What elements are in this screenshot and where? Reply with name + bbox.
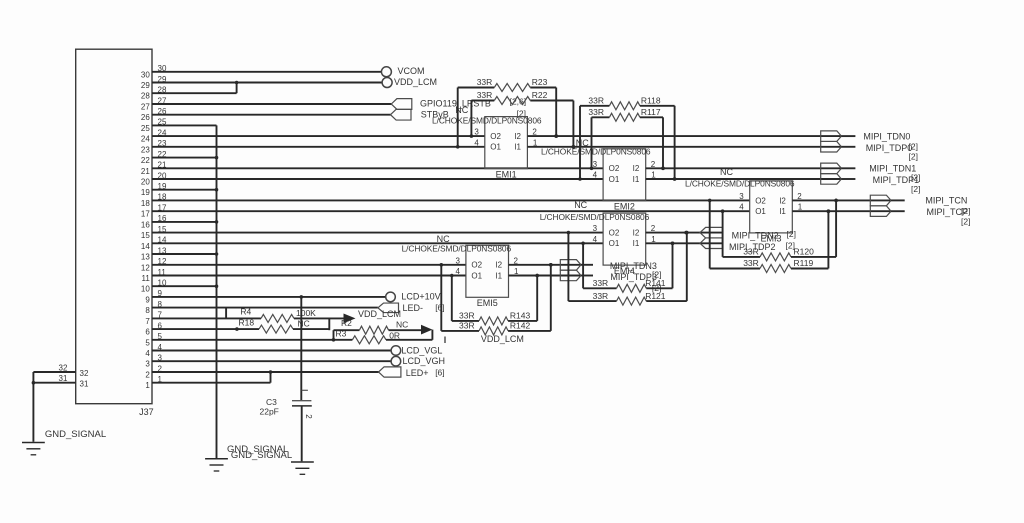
svg-text:31: 31 bbox=[59, 374, 68, 383]
wire pin 17 bbox=[152, 210, 750, 212]
ground GND_SIGNAL (left) bbox=[22, 429, 106, 455]
svg-text:26: 26 bbox=[141, 113, 150, 122]
svg-text:LED-: LED- bbox=[403, 303, 424, 313]
value label L/CHOKE/SMD/DLP0NS0806 (EMI3) bbox=[685, 179, 795, 189]
svg-text:19: 19 bbox=[141, 188, 150, 197]
port LED- bbox=[378, 302, 445, 312]
svg-text:4: 4 bbox=[474, 138, 479, 147]
svg-text:O2: O2 bbox=[490, 132, 501, 141]
svg-text:O1: O1 bbox=[490, 143, 501, 152]
svg-text:R119: R119 bbox=[794, 258, 814, 268]
svg-text:17: 17 bbox=[141, 210, 150, 219]
svg-text:13: 13 bbox=[141, 253, 150, 262]
svg-text:MIPI_TDN3: MIPI_TDN3 bbox=[610, 261, 657, 271]
svg-text:R2: R2 bbox=[341, 318, 352, 328]
svg-text:NC: NC bbox=[574, 200, 587, 210]
svg-text:[6]: [6] bbox=[435, 302, 444, 312]
EMI filter EMI3 bbox=[739, 181, 803, 244]
svg-text:4: 4 bbox=[593, 235, 598, 244]
svg-text:R120: R120 bbox=[794, 247, 815, 257]
svg-text:R23: R23 bbox=[532, 77, 548, 87]
svg-text:33R: 33R bbox=[477, 90, 493, 100]
wire pin 28 (joins pin 29 net) bbox=[152, 81, 238, 94]
connector J37 bbox=[59, 49, 167, 417]
svg-text:O1: O1 bbox=[609, 175, 620, 184]
svg-text:4: 4 bbox=[739, 203, 744, 212]
svg-text:I2: I2 bbox=[633, 229, 640, 238]
value label L/CHOKE/SMD/DLP0NS0806 (EMI2) bbox=[541, 147, 651, 157]
resistor R18 NC bbox=[235, 317, 329, 333]
svg-text:MIPI_TDN2: MIPI_TDN2 bbox=[732, 230, 779, 240]
svg-text:33R: 33R bbox=[593, 291, 609, 301]
wire pin 9 net to C3 bbox=[300, 297, 302, 400]
svg-text:30: 30 bbox=[141, 70, 150, 79]
svg-text:VCOM: VCOM bbox=[398, 66, 425, 76]
port MIPI_TDN0 / MIPI_TDP0 bbox=[821, 131, 918, 162]
svg-text:[2]: [2] bbox=[911, 184, 920, 194]
svg-text:LED+: LED+ bbox=[406, 368, 429, 378]
svg-text:R118: R118 bbox=[641, 96, 661, 106]
svg-text:R3: R3 bbox=[336, 328, 347, 338]
svg-text:O1: O1 bbox=[609, 239, 620, 248]
label NC (EMI5) bbox=[437, 234, 450, 244]
value label L/CHOKE/SMD/DLP0NS0806 (EMI5) bbox=[402, 244, 512, 254]
svg-text:[2]: [2] bbox=[787, 229, 796, 239]
svg-text:3: 3 bbox=[474, 128, 479, 137]
resistor R22 33R bbox=[470, 90, 576, 148]
EMI filter EMI4 bbox=[593, 213, 657, 276]
svg-text:22pF: 22pF bbox=[260, 406, 279, 416]
wire pin 27 bbox=[152, 103, 391, 105]
svg-text:L/CHOKE/SMD/DLP0NS0806: L/CHOKE/SMD/DLP0NS0806 bbox=[402, 244, 512, 254]
wire pin 29 bbox=[152, 82, 382, 84]
svg-text:11: 11 bbox=[141, 274, 150, 283]
svg-text:33R: 33R bbox=[743, 247, 759, 257]
svg-text:I2: I2 bbox=[633, 164, 640, 173]
resistor R23 33R bbox=[456, 77, 558, 148]
svg-text:R121: R121 bbox=[645, 291, 666, 301]
svg-text:2: 2 bbox=[145, 371, 150, 380]
wire pin 13 bbox=[152, 252, 218, 256]
resistor R117 33R bbox=[588, 107, 664, 170]
wire EMI3 pin2 out (MIPI_TCN) bbox=[792, 199, 891, 203]
svg-text:LCD+10V: LCD+10V bbox=[401, 292, 440, 302]
svg-text:[2]: [2] bbox=[909, 142, 918, 152]
wire pin 15 bbox=[152, 232, 603, 234]
wire pin 11 bbox=[152, 275, 466, 277]
resistor R121 33R bbox=[567, 231, 689, 305]
svg-text:R143: R143 bbox=[510, 311, 531, 321]
svg-text:R142: R142 bbox=[510, 321, 531, 331]
svg-text:VDD_LCM: VDD_LCM bbox=[481, 334, 524, 344]
svg-text:33R: 33R bbox=[593, 278, 609, 288]
wire pin 2 bbox=[152, 370, 379, 374]
power arrow NC net bbox=[421, 325, 445, 343]
svg-text:I2: I2 bbox=[495, 261, 502, 270]
wire EMI4 pin2 out (MIPI_TDN2) bbox=[646, 231, 723, 235]
label NC (EMI2) bbox=[576, 138, 589, 148]
svg-text:NC: NC bbox=[298, 318, 310, 328]
svg-text:R117: R117 bbox=[641, 107, 661, 117]
port STByB bbox=[391, 109, 526, 120]
wire pin 26 bbox=[152, 114, 391, 116]
resistor R141 33R bbox=[581, 242, 674, 293]
svg-text:MIPI_TCN: MIPI_TCN bbox=[925, 196, 967, 206]
svg-text:0R: 0R bbox=[389, 331, 400, 341]
port MIPI_TDN1 / MIPI_TDP1 bbox=[821, 163, 921, 194]
wire pin 10 bbox=[152, 284, 218, 288]
resistor R4 100K bbox=[240, 307, 343, 323]
svg-text:I1: I1 bbox=[633, 239, 640, 248]
svg-text:7: 7 bbox=[145, 317, 150, 326]
resistor R119 33R bbox=[708, 199, 830, 273]
svg-text:NC: NC bbox=[396, 320, 408, 330]
svg-text:O2: O2 bbox=[471, 261, 482, 270]
svg-text:33R: 33R bbox=[743, 258, 759, 268]
resistor R2 NC bbox=[334, 318, 422, 340]
svg-text:[2]: [2] bbox=[961, 217, 970, 227]
svg-text:I2: I2 bbox=[514, 132, 521, 141]
svg-text:[6]: [6] bbox=[435, 368, 444, 378]
wire pin 6 bbox=[152, 328, 259, 330]
svg-text:3: 3 bbox=[593, 160, 598, 169]
resistor R143 33R bbox=[450, 274, 539, 325]
wire pin 31 bbox=[32, 381, 76, 385]
svg-text:25: 25 bbox=[141, 124, 150, 133]
wire pin 1 (jog up to pin 2 net) bbox=[152, 372, 271, 383]
wire EMI2 pin1 out (MIPI_TDP1) bbox=[646, 177, 842, 181]
wire GND bus vertical bbox=[216, 125, 218, 458]
wire EMI5 pin2 out (MIPI_TDN3) bbox=[509, 263, 582, 267]
wire EMI3 pin1 out (MIPI_TCP) bbox=[792, 209, 891, 213]
resistor R120 33R bbox=[721, 199, 838, 261]
EMI filter EMI2 bbox=[593, 149, 657, 212]
svg-text:O1: O1 bbox=[471, 271, 482, 280]
svg-text:3: 3 bbox=[145, 360, 150, 369]
svg-text:GND_SIGNAL: GND_SIGNAL bbox=[45, 429, 106, 440]
svg-text:I1: I1 bbox=[779, 207, 786, 216]
svg-text:O1: O1 bbox=[755, 207, 766, 216]
svg-text:23: 23 bbox=[141, 145, 150, 154]
wire pin 32 bbox=[33, 371, 75, 373]
svg-text:[2]: [2] bbox=[911, 173, 920, 183]
power label VDD_LCM (at R142) bbox=[481, 334, 524, 344]
svg-text:33R: 33R bbox=[588, 96, 604, 106]
value label L/CHOKE/SMD/DLP0NS0806 (EMI4) bbox=[540, 212, 650, 222]
svg-text:27: 27 bbox=[141, 103, 150, 112]
svg-text:14: 14 bbox=[141, 242, 150, 251]
port GPIO119_LRSTB bbox=[391, 96, 526, 109]
wire pin 3 bbox=[152, 360, 391, 362]
svg-text:O2: O2 bbox=[755, 196, 766, 205]
svg-text:20: 20 bbox=[141, 178, 150, 187]
wire pin 19 bbox=[152, 188, 218, 192]
svg-text:5: 5 bbox=[145, 338, 150, 347]
wire pin 4 bbox=[152, 350, 391, 352]
terminal LCD_VGH bbox=[391, 356, 445, 366]
svg-text:EMI1: EMI1 bbox=[496, 169, 517, 179]
wire pin 16 bbox=[152, 220, 218, 224]
svg-text:21: 21 bbox=[141, 167, 150, 176]
wire EMI2 pin2 out (MIPI_TDN1) bbox=[646, 167, 842, 171]
svg-text:33R: 33R bbox=[459, 311, 475, 321]
wire pin 7 bbox=[152, 317, 261, 319]
svg-text:LCD_VGL: LCD_VGL bbox=[401, 345, 442, 355]
svg-text:I1: I1 bbox=[514, 143, 521, 152]
svg-text:33R: 33R bbox=[459, 321, 475, 331]
port MIPI_TDN3 / MIPI_TDP3 bbox=[560, 260, 661, 293]
svg-text:32: 32 bbox=[80, 369, 89, 378]
svg-text:1: 1 bbox=[145, 381, 150, 390]
svg-text:I1: I1 bbox=[633, 175, 640, 184]
resistor R142 33R bbox=[440, 263, 553, 335]
capacitor C3 22pF bbox=[260, 390, 313, 419]
svg-text:[2]: [2] bbox=[961, 206, 970, 216]
svg-text:L/CHOKE/SMD/DLP0NS0806: L/CHOKE/SMD/DLP0NS0806 bbox=[685, 179, 795, 189]
svg-text:31: 31 bbox=[80, 380, 89, 389]
label NC (EMI1) bbox=[455, 105, 468, 115]
terminal VCOM bbox=[381, 66, 424, 77]
svg-text:4: 4 bbox=[455, 267, 460, 276]
value label L/CHOKE/SMD/DLP0NS0806 (EMI1) bbox=[432, 116, 542, 126]
svg-text:EMI5: EMI5 bbox=[477, 298, 498, 308]
svg-text:24: 24 bbox=[141, 135, 150, 144]
wire pin 5 bbox=[152, 339, 352, 341]
wire pin 22 bbox=[152, 156, 218, 160]
wire EMI5 pin1 out (MIPI_TDP3) bbox=[509, 274, 582, 278]
svg-text:2: 2 bbox=[304, 414, 313, 419]
label NC (EMI4) bbox=[574, 200, 587, 210]
power arrow VDD_LCM bbox=[344, 309, 402, 323]
svg-text:18: 18 bbox=[141, 199, 150, 208]
svg-text:GND_SIGNAL: GND_SIGNAL bbox=[231, 450, 292, 461]
wire pin 24 bbox=[152, 135, 485, 137]
svg-text:L/CHOKE/SMD/DLP0NS0806: L/CHOKE/SMD/DLP0NS0806 bbox=[541, 147, 651, 157]
wire pin 30 bbox=[152, 71, 381, 73]
wire pin 18 bbox=[152, 199, 750, 201]
svg-text:MIPI_TDN1: MIPI_TDN1 bbox=[869, 164, 916, 174]
wire pin 21 bbox=[152, 167, 603, 169]
svg-text:33R: 33R bbox=[588, 107, 604, 117]
svg-text:R22: R22 bbox=[532, 90, 548, 100]
svg-text:9: 9 bbox=[145, 295, 150, 304]
svg-text:3: 3 bbox=[455, 256, 460, 265]
svg-text:12: 12 bbox=[141, 263, 150, 272]
svg-text:L/CHOKE/SMD/DLP0NS0806: L/CHOKE/SMD/DLP0NS0806 bbox=[432, 116, 542, 126]
svg-text:10: 10 bbox=[141, 285, 150, 294]
svg-text:6: 6 bbox=[145, 328, 150, 337]
terminal LCD_VGL bbox=[391, 345, 442, 355]
svg-text:J37: J37 bbox=[139, 407, 154, 417]
port MIPI_TCN / MIPI_TCP bbox=[870, 195, 970, 227]
svg-text:22: 22 bbox=[141, 156, 150, 165]
EMI filter EMI5 bbox=[455, 245, 519, 308]
ground GND_SIGNAL (bus) bbox=[205, 444, 292, 471]
wire pin 14 bbox=[152, 242, 603, 244]
wire EMI4 pin1 out (MIPI_TDP2) bbox=[646, 242, 723, 246]
svg-text:8: 8 bbox=[145, 306, 150, 315]
wire pin 23 bbox=[152, 146, 485, 148]
svg-text:MIPI_TDN0: MIPI_TDN0 bbox=[863, 131, 910, 141]
svg-text:I1: I1 bbox=[495, 271, 502, 280]
svg-text:R4: R4 bbox=[240, 307, 251, 317]
svg-text:29: 29 bbox=[141, 81, 150, 90]
EMI filter EMI1 bbox=[474, 117, 538, 180]
terminal LCD+10V bbox=[386, 292, 441, 302]
svg-text:VDD_LCM: VDD_LCM bbox=[358, 309, 401, 319]
svg-text:4: 4 bbox=[593, 171, 598, 180]
svg-text:R18: R18 bbox=[239, 317, 255, 327]
svg-text:16: 16 bbox=[141, 220, 150, 229]
svg-text:LCD_VGH: LCD_VGH bbox=[403, 356, 446, 366]
resistor R118 33R bbox=[578, 96, 676, 181]
port LED+ bbox=[379, 367, 445, 378]
wire pin 9 bbox=[152, 295, 386, 299]
svg-text:O2: O2 bbox=[609, 229, 620, 238]
svg-text:NC: NC bbox=[437, 234, 450, 244]
svg-text:VDD_LCM: VDD_LCM bbox=[394, 77, 437, 87]
wire EMI1 pin1 out (MIPI_TDP0) bbox=[527, 145, 841, 149]
wire pin 20 bbox=[152, 178, 603, 180]
resistor R3 0R bbox=[332, 328, 433, 343]
wire pin 8 (to LED- tag, jog to pin 7) bbox=[152, 308, 378, 319]
svg-text:O2: O2 bbox=[609, 164, 620, 173]
svg-text:4: 4 bbox=[145, 349, 150, 358]
svg-text:15: 15 bbox=[141, 231, 150, 240]
wire pin 25 bbox=[152, 124, 217, 126]
port MIPI_TDN2 / MIPI_TDP2 bbox=[700, 227, 796, 252]
label NC (EMI3) bbox=[720, 167, 733, 177]
svg-text:[2]: [2] bbox=[909, 152, 918, 162]
svg-text:R141: R141 bbox=[645, 278, 666, 288]
wire pin 12 bbox=[152, 264, 466, 266]
wire C3 to ground bbox=[301, 406, 303, 461]
svg-text:MIPI_TDP0: MIPI_TDP0 bbox=[866, 143, 913, 153]
ground GND_SIGNAL (C3) bbox=[291, 462, 314, 474]
svg-text:3: 3 bbox=[739, 192, 744, 201]
svg-text:L/CHOKE/SMD/DLP0NS0806: L/CHOKE/SMD/DLP0NS0806 bbox=[540, 212, 650, 222]
wire pins 31/32 to ground bbox=[32, 372, 34, 442]
svg-text:3: 3 bbox=[593, 224, 598, 233]
wire EMI1 pin2 out (MIPI_TDN0) bbox=[527, 134, 841, 138]
svg-text:28: 28 bbox=[141, 92, 150, 101]
svg-text:100K: 100K bbox=[296, 308, 316, 318]
svg-text:I2: I2 bbox=[779, 196, 786, 205]
svg-text:33R: 33R bbox=[477, 77, 493, 87]
svg-text:EMI2: EMI2 bbox=[614, 202, 635, 212]
terminal VDD_LCM bbox=[382, 77, 437, 87]
